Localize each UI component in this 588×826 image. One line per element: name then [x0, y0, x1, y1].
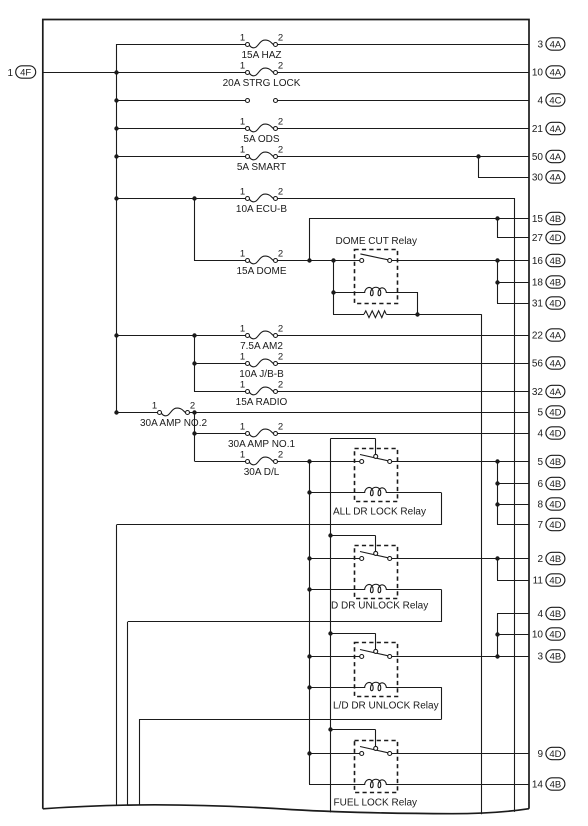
svg-text:22: 22	[532, 331, 544, 342]
wire J/B-B row	[194, 363, 246, 365]
svg-text:4: 4	[537, 96, 543, 107]
wire D DR pivot feed	[330, 535, 375, 537]
svg-text:5: 5	[537, 457, 543, 468]
junction D DR pivot branch	[328, 533, 332, 537]
svg-text:D DR UNLOCK Relay: D DR UNLOCK Relay	[331, 600, 428, 611]
svg-text:30A AMP NO.2: 30A AMP NO.2	[140, 418, 208, 429]
pin 30 connector 4A	[532, 171, 565, 184]
svg-text:9: 9	[537, 749, 543, 760]
relay ALL DR LOCK coil	[365, 487, 387, 495]
pin 18 connector 4B	[532, 276, 565, 289]
fuse 20A STRG LOCK	[223, 61, 301, 89]
wire branch to pin 27	[497, 219, 499, 238]
svg-text:4D: 4D	[549, 629, 561, 640]
junction resistor out	[415, 312, 419, 316]
wire 4F input	[43, 72, 246, 74]
relay FUEL LOCK coil	[365, 779, 387, 787]
svg-text:4B: 4B	[550, 214, 562, 225]
pin 5 connector 4D	[537, 406, 564, 419]
wire L/D switch row	[309, 656, 360, 658]
svg-text:1: 1	[240, 380, 245, 391]
junction AM2 branch	[192, 333, 196, 337]
svg-text:15A HAZ: 15A HAZ	[241, 50, 281, 61]
wire pivot bus	[330, 438, 375, 440]
wire branch pins 6 8 7	[497, 462, 499, 525]
junction DOME-15	[307, 258, 311, 262]
junction 16-18 branch	[495, 258, 499, 262]
svg-text:2: 2	[190, 401, 195, 412]
wire ODS row	[116, 128, 246, 130]
svg-text:2: 2	[278, 450, 283, 461]
wire DOME coil left vertical	[333, 261, 335, 315]
svg-text:2: 2	[278, 380, 283, 391]
wire ECU-B row	[116, 198, 246, 200]
junction ALL DR coil feed	[307, 490, 311, 494]
relay L/D DR UNLOCK switch	[360, 649, 392, 658]
wire ECU-B long vertical	[514, 198, 516, 812]
svg-text:4A: 4A	[550, 39, 562, 50]
relay D DR UNLOCK coil	[365, 584, 387, 592]
svg-text:4D: 4D	[549, 499, 561, 510]
svg-text:4B: 4B	[550, 609, 562, 620]
svg-text:4B: 4B	[550, 554, 562, 565]
relay L/D DR UNLOCK coil	[365, 682, 387, 690]
svg-text:10: 10	[532, 630, 544, 641]
svg-text:4C: 4C	[549, 95, 561, 106]
junction bus-DDR	[307, 556, 311, 560]
relay DOME CUT coil	[365, 287, 387, 295]
wire DOME coil row	[333, 292, 365, 294]
svg-text:2: 2	[537, 554, 543, 565]
svg-text:3: 3	[537, 40, 543, 51]
fuse 10A J/B-B	[239, 352, 284, 380]
svg-text:4B: 4B	[550, 457, 562, 468]
svg-text:1: 1	[240, 422, 245, 433]
svg-text:L/D DR UNLOCK Relay: L/D DR UNLOCK Relay	[333, 700, 439, 711]
svg-text:30: 30	[532, 173, 544, 184]
junction AMP NO.1	[192, 431, 196, 435]
junction 6	[495, 481, 499, 485]
pin 4 connector 4C	[537, 94, 564, 107]
wire FUEL coil row	[309, 784, 365, 786]
svg-text:1: 1	[240, 352, 245, 363]
wire DOME coil right vertical	[417, 292, 419, 314]
svg-text:10A ECU-B: 10A ECU-B	[236, 204, 287, 215]
wire STRG LOCK row	[278, 72, 530, 74]
svg-text:31: 31	[532, 299, 544, 310]
fuse 5A ODS	[240, 117, 283, 145]
wire D DR coil return	[441, 590, 443, 622]
svg-text:32: 32	[532, 387, 544, 398]
pin 11 connector 4D	[533, 574, 565, 587]
wire L/D coil return	[441, 687, 443, 719]
svg-text:18: 18	[532, 278, 544, 289]
junction bus-FUEL	[307, 751, 311, 755]
svg-text:2: 2	[278, 187, 283, 198]
pin 15 connector 4B	[532, 212, 565, 225]
resistor DOME	[364, 311, 386, 318]
svg-text:5A SMART: 5A SMART	[237, 162, 286, 173]
svg-text:4B: 4B	[550, 479, 562, 490]
junction 5-6 branch	[495, 459, 499, 463]
junction 18	[495, 280, 499, 284]
relay ALL DR LOCK switch	[360, 454, 392, 463]
junction 3-10-4 branch	[495, 654, 499, 658]
pin 27 connector 4D	[532, 231, 565, 244]
svg-text:10: 10	[532, 68, 544, 79]
wire bottom continuation edge	[43, 805, 529, 814]
junction bus-LD	[307, 654, 311, 658]
svg-text:4D: 4D	[549, 575, 561, 586]
wire 4C pass-through row	[116, 100, 246, 102]
relay FUEL LOCK switch	[360, 746, 392, 755]
svg-text:1: 1	[240, 450, 245, 461]
svg-text:4A: 4A	[550, 330, 562, 341]
svg-text:1: 1	[240, 145, 245, 156]
pin 22 connector 4A	[532, 329, 565, 342]
wire FUEL pivot feed	[330, 729, 375, 731]
svg-text:4A: 4A	[550, 152, 562, 163]
wire AM2 branch vertical	[194, 335, 196, 392]
fuse 30A AMP NO.2	[140, 401, 208, 429]
pin 7 connector 4D	[537, 518, 564, 531]
wire D DR coil row	[309, 589, 365, 591]
junction L/D pivot branch	[328, 631, 332, 635]
wire AMP NO.2 row	[116, 412, 157, 414]
svg-text:10A J/B-B: 10A J/B-B	[239, 369, 284, 380]
svg-text:7: 7	[537, 520, 543, 531]
junction 8	[495, 502, 499, 506]
fuse 15A RADIO	[236, 380, 288, 408]
svg-text:2: 2	[278, 33, 283, 44]
pin 10 connector 4D	[532, 628, 565, 641]
svg-text:15A RADIO: 15A RADIO	[236, 397, 288, 408]
junction bus-AMPNO2	[114, 410, 118, 414]
relay FUEL LOCK box	[334, 741, 418, 809]
relay L/D DR UNLOCK box	[333, 643, 439, 712]
junction J/B-B	[192, 361, 196, 365]
relay D DR UNLOCK box	[331, 546, 428, 612]
wire DOME row	[194, 260, 246, 262]
svg-text:4D: 4D	[549, 407, 561, 418]
wire L/D coil row	[309, 687, 365, 689]
pin 5 connector 4B	[537, 455, 564, 468]
svg-text:11: 11	[533, 576, 544, 587]
pin 8 connector 4D	[537, 498, 564, 511]
relay D DR UNLOCK switch	[360, 551, 392, 560]
svg-text:30A D/L: 30A D/L	[244, 467, 280, 478]
wire to pin 15	[309, 219, 311, 261]
pin 10 connector 4A	[532, 66, 565, 79]
pin 31 connector 4D	[532, 297, 565, 310]
wire ALL DR coil return	[441, 493, 443, 525]
svg-text:4A: 4A	[550, 172, 562, 183]
wire AMP NO.1 row	[195, 433, 246, 435]
svg-text:4B: 4B	[550, 779, 562, 790]
terminal 4C left	[246, 99, 250, 103]
svg-text:2: 2	[278, 61, 283, 72]
svg-text:15: 15	[532, 214, 544, 225]
junction 10	[495, 632, 499, 636]
pin 9 connector 4D	[537, 747, 564, 760]
junction bus-SMART	[114, 154, 118, 158]
svg-text:4B: 4B	[550, 277, 562, 288]
svg-text:5A ODS: 5A ODS	[243, 134, 279, 145]
svg-text:4: 4	[537, 429, 543, 440]
fuse 7.5A AM2	[240, 324, 283, 352]
pin 3 connector 4B	[537, 650, 564, 663]
svg-text:2: 2	[278, 117, 283, 128]
relay DOME CUT box	[336, 236, 418, 304]
svg-text:1: 1	[240, 61, 245, 72]
wire branch pins 4 10	[497, 614, 499, 657]
wire DOME feed vertical	[194, 198, 196, 261]
wire HAZ row	[116, 44, 246, 46]
svg-text:27: 27	[532, 233, 544, 244]
svg-text:2: 2	[278, 422, 283, 433]
pin 50 connector 4A	[532, 150, 565, 163]
wire RADIO row	[194, 391, 246, 393]
svg-text:4D: 4D	[549, 749, 561, 760]
wire resistor long vertical	[481, 314, 483, 814]
pin 6 connector 4B	[537, 477, 564, 490]
wire branch to pin 30	[478, 157, 480, 178]
fuse 15A DOME	[236, 249, 286, 277]
wire SMART row	[116, 156, 246, 158]
junction AMPNO2 branch	[192, 410, 196, 414]
svg-text:6: 6	[537, 479, 543, 490]
pin 32 connector 4A	[532, 385, 565, 398]
pin 21 connector 4A	[532, 122, 565, 135]
svg-text:4D: 4D	[549, 233, 561, 244]
pin 14 connector 4B	[532, 778, 565, 791]
svg-text:8: 8	[537, 500, 543, 511]
junction bus-AM2	[114, 333, 118, 337]
svg-text:7.5A AM2: 7.5A AM2	[240, 341, 283, 352]
svg-text:16: 16	[532, 256, 544, 267]
svg-text:5: 5	[537, 408, 543, 419]
junction 4F-bus	[114, 70, 118, 74]
fuse 10A ECU-B	[236, 187, 287, 215]
svg-text:56: 56	[532, 359, 544, 370]
svg-text:4F: 4F	[20, 67, 31, 78]
svg-text:2: 2	[278, 145, 283, 156]
svg-text:14: 14	[532, 780, 544, 791]
pin 16 connector 4B	[532, 254, 565, 267]
fuse 5A SMART	[237, 145, 286, 173]
wire branch to pins 18 31	[497, 261, 499, 304]
pin 4 connector 4B	[537, 607, 564, 620]
wire AMPNO1 feed vertical	[194, 412, 196, 462]
svg-text:4D: 4D	[549, 428, 561, 439]
connector 1 4F	[7, 66, 35, 79]
svg-text:30A AMP NO.1: 30A AMP NO.1	[228, 439, 296, 450]
junction bus-ECUB	[114, 196, 118, 200]
svg-text:21: 21	[532, 124, 544, 135]
wire resistor row	[333, 314, 364, 316]
wire branch pin 11	[497, 559, 499, 581]
junction 2-11 branch	[495, 556, 499, 560]
svg-text:3: 3	[537, 652, 543, 663]
svg-text:4A: 4A	[550, 67, 562, 78]
fuse 30A D/L	[240, 450, 283, 478]
svg-text:2: 2	[278, 249, 283, 260]
terminal 4C right	[274, 99, 278, 103]
junction bus-ODS	[114, 126, 118, 130]
svg-text:1: 1	[240, 187, 245, 198]
svg-text:20A STRG LOCK: 20A STRG LOCK	[223, 78, 301, 89]
svg-text:50: 50	[532, 152, 544, 163]
svg-text:4A: 4A	[550, 124, 562, 135]
junction coil-resistor	[331, 290, 335, 294]
junction L/D coil feed	[307, 685, 311, 689]
svg-text:ALL DR LOCK Relay: ALL DR LOCK Relay	[333, 506, 426, 517]
wire L/D pivot feed	[330, 633, 375, 635]
svg-text:2: 2	[278, 324, 283, 335]
svg-text:15A DOME: 15A DOME	[236, 266, 286, 277]
svg-text:1: 1	[240, 33, 245, 44]
junction FUEL pivot branch	[328, 727, 332, 731]
svg-text:4D: 4D	[549, 520, 561, 531]
svg-text:2: 2	[278, 352, 283, 363]
wire lock relay bus	[309, 462, 311, 785]
svg-text:4A: 4A	[550, 358, 562, 369]
svg-text:1: 1	[240, 324, 245, 335]
svg-text:4B: 4B	[550, 651, 562, 662]
wire AM2 row	[116, 335, 246, 337]
fuse 30A AMP NO.1	[228, 422, 296, 450]
wire D DR switch row	[309, 558, 360, 560]
pin 4 connector 4D	[537, 427, 564, 440]
pin 56 connector 4A	[532, 357, 565, 370]
svg-text:4D: 4D	[549, 298, 561, 309]
pin 2 connector 4B	[537, 552, 564, 565]
svg-text:1: 1	[7, 68, 13, 79]
wire D/L row	[195, 461, 246, 463]
svg-text:4B: 4B	[550, 256, 562, 267]
wire FUEL switch row	[309, 753, 360, 755]
junction 15-27 branch	[495, 216, 499, 220]
junction D/L-bus	[307, 459, 311, 463]
pin 3 connector 4A	[537, 38, 564, 51]
svg-text:1: 1	[240, 249, 245, 260]
junction D DR coil feed	[307, 587, 311, 591]
wire ALL DR coil row	[309, 492, 365, 494]
svg-text:FUEL LOCK Relay: FUEL LOCK Relay	[334, 798, 418, 809]
svg-text:1: 1	[240, 117, 245, 128]
relay ALL DR LOCK box	[333, 449, 426, 518]
wire left bus	[116, 44, 118, 412]
junction bus-4C	[114, 98, 118, 102]
relay DOME CUT switch	[360, 254, 392, 263]
svg-text:1: 1	[152, 401, 157, 412]
wire ALL DR pivot feed	[375, 439, 377, 455]
junction DOME coil branch	[331, 258, 335, 262]
svg-text:4A: 4A	[550, 387, 562, 398]
junction SMART-30 branch	[476, 154, 480, 158]
fuse 15A HAZ	[240, 33, 283, 61]
junction ECUB-DOME branch	[192, 196, 196, 200]
svg-text:4: 4	[537, 609, 543, 620]
svg-text:DOME CUT Relay: DOME CUT Relay	[336, 236, 418, 247]
